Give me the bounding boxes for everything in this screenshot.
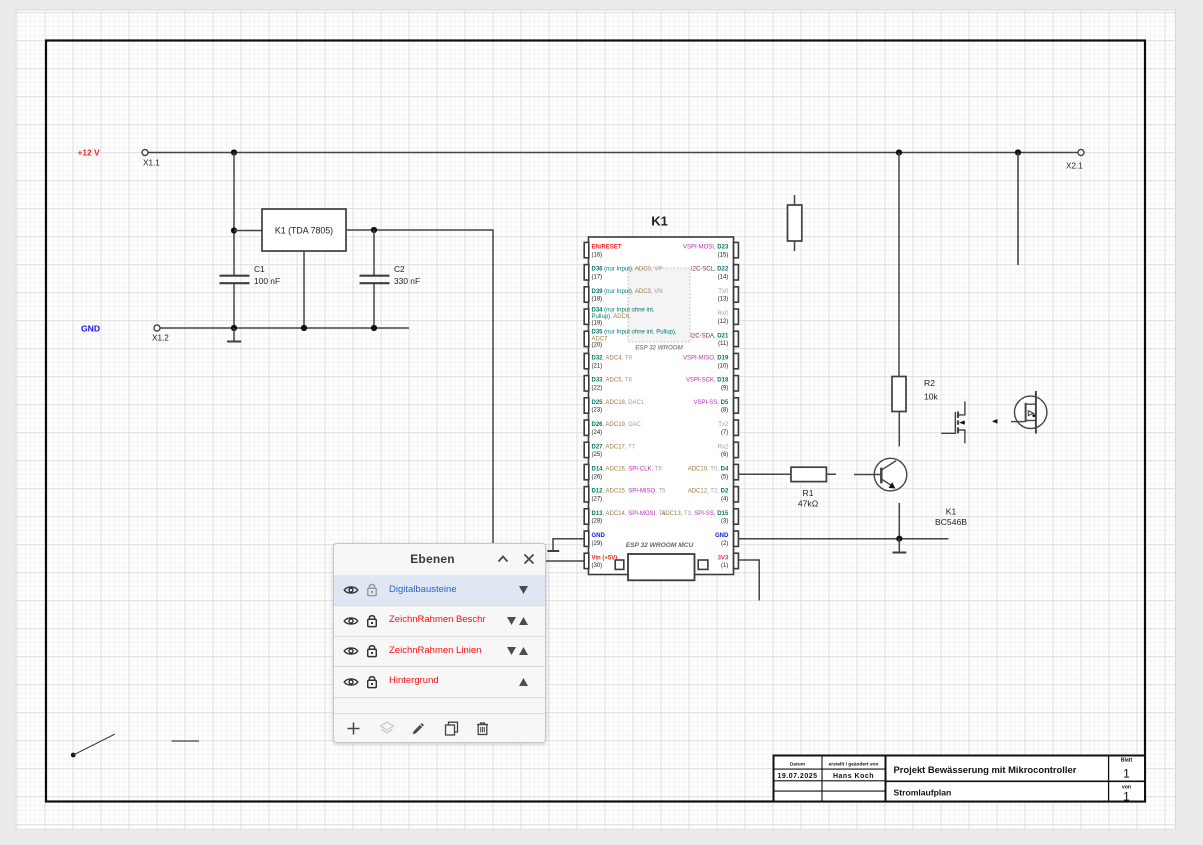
title block project name	[894, 764, 1077, 775]
label C1 100 nF	[254, 264, 280, 286]
U1 pin 20 (left)	[584, 330, 677, 349]
U1 bottom connector	[628, 554, 695, 580]
label R1 47kOhm	[798, 488, 819, 509]
svg-text:X2.1: X2.1	[1066, 162, 1083, 171]
wire ESP D4 pin5 to R1	[738, 473, 836, 475]
svg-text:K1: K1	[651, 214, 668, 229]
junction at regulator input	[231, 227, 237, 233]
svg-text:1: 1	[1123, 790, 1130, 804]
U1 pin 7 (right)	[718, 420, 738, 436]
label X1.1	[143, 159, 160, 168]
U1 pin 8 (right)	[694, 398, 739, 414]
junction at C2 branch	[371, 227, 377, 233]
U1 pin 3 (right)	[661, 509, 738, 525]
layers panel button add layer	[346, 721, 361, 736]
svg-text:X1.1: X1.1	[143, 159, 160, 168]
svg-text:Tx0: Tx0	[718, 289, 729, 295]
junction GND rail / C2	[371, 325, 377, 331]
U1 pin 25 (left)	[584, 442, 636, 458]
layers panel title	[334, 544, 545, 575]
svg-text:I2C-SCL, D22: I2C-SCL, D22	[691, 267, 729, 273]
layers panel row: Hintergrund	[334, 666, 545, 697]
svg-text:330 nF: 330 nF	[394, 276, 420, 286]
U1 pin 26 (left)	[584, 464, 662, 480]
junction GND rail / C1	[231, 325, 237, 331]
capacitor C1	[220, 276, 250, 328]
MCU U1 body (ESP 32 WROOM)	[589, 237, 734, 575]
svg-text:3V3: 3V3	[718, 555, 729, 561]
label X2.1	[1066, 162, 1083, 171]
junction on +12V rail at C1 branch	[231, 149, 237, 155]
resistor R2	[892, 377, 906, 412]
svg-text:D26, ADC19, DAC: D26, ADC19, DAC	[592, 422, 642, 428]
svg-text:D25, ADC18, DAC1: D25, ADC18, DAC1	[592, 400, 645, 406]
layers panel button edit (pencil)	[411, 721, 426, 736]
MCU U1 title K1	[651, 214, 668, 229]
U1 pin 14 (right)	[691, 265, 738, 281]
title block frame	[774, 756, 1146, 802]
svg-text:Hans Koch: Hans Koch	[833, 773, 874, 780]
junction emitter/GND rail	[896, 536, 902, 542]
svg-text:10k: 10k	[924, 392, 939, 402]
voltage regulator K1 (TDA 7805)	[262, 209, 346, 251]
U1 pin 18 (left)	[584, 287, 662, 303]
net label GND	[81, 324, 100, 334]
svg-text:C1: C1	[254, 264, 265, 274]
ground symbol below C1	[227, 328, 241, 342]
terminal X1.1	[142, 150, 148, 156]
svg-text:GND: GND	[715, 533, 729, 539]
svg-text:R1: R1	[803, 488, 814, 498]
U1 pin 24 (left)	[584, 420, 641, 436]
layers panel button delete (trash)	[475, 721, 490, 736]
U1 pin 29 (left)	[584, 531, 605, 547]
ESP 32 WROOM module outline (dotted)	[628, 268, 690, 352]
title block total sheets 1	[1123, 790, 1130, 804]
layers panel button duplicate	[444, 721, 459, 736]
label X1.2	[152, 334, 169, 343]
layers panel collapse button	[497, 554, 509, 564]
U1 pin 4 (right)	[688, 487, 739, 503]
svg-text:(4): (4)	[721, 497, 728, 503]
label R2 10k	[924, 378, 939, 402]
svg-text:(14): (14)	[718, 275, 729, 281]
layers panel row: ZeichnRahmen Beschr	[334, 605, 545, 636]
U1 pin 21 (left)	[584, 353, 632, 369]
svg-text:GND: GND	[81, 324, 100, 334]
svg-text:Vin (+5V): Vin (+5V)	[592, 555, 618, 561]
svg-text:(9): (9)	[721, 386, 728, 392]
svg-text:VSPI-MOSI, D23: VSPI-MOSI, D23	[683, 245, 729, 251]
svg-text:ADC10, T0, D4: ADC10, T0, D4	[688, 467, 729, 473]
svg-text:(12): (12)	[718, 319, 729, 325]
svg-text:(6): (6)	[721, 452, 728, 458]
terminal X1.2	[154, 325, 160, 331]
svg-text:Blatt: Blatt	[1121, 758, 1133, 764]
arrow marker (floating)	[992, 419, 998, 424]
layers panel footer divider	[334, 713, 545, 714]
svg-text:C2: C2	[394, 264, 405, 274]
U1 pin 16 (left)	[584, 242, 622, 258]
U1 pin 1 (right)	[718, 553, 739, 569]
layers panel (Ebenen)	[333, 543, 546, 743]
svg-text:GND: GND	[592, 533, 606, 539]
svg-text:(3): (3)	[721, 519, 728, 525]
wire C2 top lead	[373, 230, 375, 275]
svg-text:(5): (5)	[721, 474, 728, 480]
wire ESP GND pin2 rail	[738, 538, 948, 540]
label ESP 32 WROOM MCU	[626, 542, 694, 549]
svg-text:(27): (27)	[592, 497, 603, 503]
title block label Datum	[790, 762, 806, 768]
svg-text:(2): (2)	[721, 541, 728, 547]
layers panel row: ZeichnRahmen Linien	[334, 636, 545, 667]
U1 pin 30 (left)	[584, 553, 617, 569]
wire rail to R2	[898, 153, 900, 377]
MOSFET Q3 (circled)	[1011, 391, 1047, 434]
wire right stub down from rail	[1017, 153, 1019, 266]
svg-text:(28): (28)	[592, 519, 603, 525]
layers panel row: Digitalbausteine	[334, 575, 545, 606]
svg-text:(22): (22)	[592, 386, 603, 392]
svg-text:(1): (1)	[721, 563, 728, 569]
svg-text:ESP 32 WROOM: ESP 32 WROOM	[635, 345, 683, 352]
svg-text:1: 1	[1123, 767, 1130, 781]
svg-text:R2: R2	[924, 378, 935, 388]
label K1 BC546B	[935, 507, 967, 527]
svg-text:(29): (29)	[592, 541, 603, 547]
label C2 330 nF	[394, 264, 420, 286]
svg-text:ESP 32 WROOM MCU: ESP 32 WROOM MCU	[626, 542, 694, 549]
svg-text:Tx2: Tx2	[718, 422, 729, 428]
title block label erstellt/geaendert von	[829, 762, 879, 768]
svg-text:ADC7: ADC7	[592, 336, 609, 342]
svg-text:Pullup), ADC6,: Pullup), ADC6,	[592, 314, 632, 320]
terminal X2.1	[1078, 150, 1084, 156]
svg-text:D12, ADC15, SPI-MISO, T5: D12, ADC15, SPI-MISO, T5	[592, 489, 667, 495]
net label +12 V	[78, 148, 101, 158]
wire GND rail	[160, 327, 409, 329]
svg-text:I2C-SDA, D21: I2C-SDA, D21	[690, 333, 729, 339]
unlabeled resistor (floating)	[788, 195, 802, 251]
svg-text:(20): (20)	[592, 343, 603, 349]
U1 pin 11 (right)	[690, 331, 738, 347]
junction on +12V rail at R2 branch	[896, 149, 902, 155]
U1 pin 27 (left)	[584, 487, 666, 503]
junction on +12V rail at right stub	[1015, 149, 1021, 155]
svg-text:K1 (TDA 7805): K1 (TDA 7805)	[275, 226, 333, 236]
svg-text:D39 (nur Input), ADC3, VN: D39 (nur Input), ADC3, VN	[592, 289, 663, 295]
svg-text:+12 V: +12 V	[78, 148, 101, 158]
svg-text:(26): (26)	[592, 474, 603, 480]
svg-text:(7): (7)	[721, 430, 728, 436]
U1 button right	[698, 560, 708, 569]
svg-text:100 nF: 100 nF	[254, 276, 280, 286]
svg-text:X1.2: X1.2	[152, 334, 169, 343]
wire ESP GND pin29 to ground	[553, 539, 584, 550]
U1 pin 13 (right)	[718, 287, 739, 303]
capacitor C2	[360, 276, 390, 328]
svg-text:VSPI-SCK, D18: VSPI-SCK, D18	[686, 378, 729, 384]
ground symbol below transistor	[893, 539, 907, 553]
U1 pin 17 (left)	[584, 265, 662, 281]
svg-text:(17): (17)	[592, 275, 603, 281]
U1 pin 10 (right)	[683, 353, 738, 369]
U1 button left	[615, 560, 624, 569]
svg-text:D27, ADC17, T7: D27, ADC17, T7	[592, 444, 636, 450]
U1 pin 28 (left)	[584, 509, 666, 525]
svg-text:D33, ADC5, T8: D33, ADC5, T8	[592, 378, 633, 384]
wire rail to C1/regulator branch	[233, 153, 235, 276]
resistor R1	[791, 467, 826, 481]
svg-text:(10): (10)	[718, 363, 729, 369]
title block sheet number 1	[1123, 767, 1130, 781]
MOSFET Q2 (floating, no circle)	[941, 401, 965, 443]
U1 pin 12 (right)	[718, 309, 739, 325]
svg-text:K1: K1	[946, 507, 957, 517]
svg-text:D32, ADC4, T9: D32, ADC4, T9	[592, 356, 633, 362]
svg-text:Stromlaufplan: Stromlaufplan	[894, 788, 952, 798]
svg-text:Projekt Bewässerung mit Mikroc: Projekt Bewässerung mit Mikrocontroller	[894, 764, 1077, 775]
U1 pin 19 (left)	[584, 308, 655, 327]
svg-text:(25): (25)	[592, 452, 603, 458]
transistor K1 BC546B (NPN)	[854, 458, 907, 491]
svg-text:D35 (nur Input ohne int. Pullu: D35 (nur Input ohne int. Pullup),	[592, 330, 677, 336]
wire emitter to GND rail	[898, 503, 900, 539]
svg-text:EN/RESET: EN/RESET	[592, 245, 622, 251]
wire ESP 3V3 pin1 stub	[738, 560, 759, 601]
svg-text:Rx0: Rx0	[718, 311, 729, 317]
svg-text:(15): (15)	[718, 252, 729, 258]
title block sheet name Stromlaufplan	[894, 788, 952, 798]
title block date 19.07.2025	[777, 773, 817, 780]
svg-text:Datum: Datum	[790, 762, 806, 768]
svg-text:(18): (18)	[592, 297, 603, 303]
svg-text:(16): (16)	[592, 252, 603, 258]
ground symbol at ESP pin29	[547, 550, 559, 552]
U1 pin 2 (right)	[715, 531, 738, 547]
wire regulator output (5V)	[346, 230, 584, 561]
svg-text:ADC12, T2, D2: ADC12, T2, D2	[688, 489, 729, 495]
U1 pin 23 (left)	[584, 398, 645, 414]
svg-text:VSPI-MISO, D19: VSPI-MISO, D19	[683, 356, 729, 362]
title block author Hans Koch	[833, 773, 874, 780]
svg-text:D36 (nur Input), ADC0, VP: D36 (nur Input), ADC0, VP	[592, 267, 663, 273]
svg-text:19.07.2025: 19.07.2025	[777, 773, 817, 780]
junction GND rail / regulator	[301, 325, 307, 331]
svg-text:47kΩ: 47kΩ	[798, 499, 819, 509]
svg-text:VSPI-SS, D5: VSPI-SS, D5	[694, 400, 729, 406]
svg-text:Rx2: Rx2	[718, 444, 729, 450]
svg-text:(8): (8)	[721, 408, 728, 414]
svg-text:ADC13, T3, SPI-SS, D15: ADC13, T3, SPI-SS, D15	[661, 511, 729, 517]
wire regulator input	[234, 230, 262, 232]
svg-text:(13): (13)	[718, 297, 729, 303]
svg-text:BC546B: BC546B	[935, 517, 967, 527]
svg-text:D14, ADC16, SPI-CLK, T6: D14, ADC16, SPI-CLK, T6	[592, 467, 663, 473]
layers panel button merge (disabled)	[379, 721, 395, 736]
title block label von	[1122, 785, 1131, 791]
U1 pin 6 (right)	[718, 442, 739, 458]
title block label Blatt	[1121, 758, 1133, 764]
wire regulator GND pin	[303, 251, 305, 328]
svg-text:(30): (30)	[592, 563, 603, 569]
U1 pin 5 (right)	[688, 464, 739, 480]
svg-text:erstellt / geändert von: erstellt / geändert von	[829, 762, 879, 768]
layers panel close button	[523, 553, 535, 565]
svg-text:(24): (24)	[592, 430, 603, 436]
U1 pin 15 (right)	[683, 242, 738, 258]
svg-text:(23): (23)	[592, 408, 603, 414]
stray short line	[172, 740, 200, 742]
wire +12V rail	[148, 152, 1078, 154]
svg-text:D13, ADC14, SPI-MOSI, T4: D13, ADC14, SPI-MOSI, T4	[592, 511, 667, 517]
stray line with endpoint dot	[71, 734, 115, 757]
svg-text:D34 (nur Input ohne int.: D34 (nur Input ohne int.	[592, 308, 655, 314]
U1 pin 22 (left)	[584, 376, 632, 392]
U1 pin 9 (right)	[686, 376, 738, 392]
svg-text:(21): (21)	[592, 363, 603, 369]
wire R2 to collector	[898, 412, 900, 447]
svg-text:(11): (11)	[718, 341, 728, 347]
svg-text:(19): (19)	[592, 321, 603, 327]
